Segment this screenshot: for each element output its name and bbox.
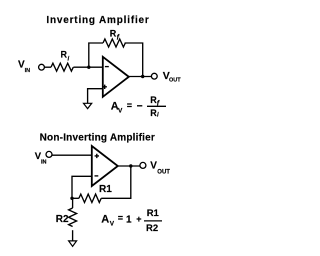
svg-text:R2: R2 — [146, 223, 158, 234]
svg-text:1: 1 — [126, 215, 132, 226]
svg-text:A: A — [101, 214, 109, 226]
svg-text:V: V — [110, 220, 115, 227]
svg-text:+: + — [136, 214, 141, 224]
svg-text:OUT: OUT — [169, 78, 181, 84]
svg-text:=: = — [118, 213, 123, 223]
svg-text:IN: IN — [25, 68, 31, 74]
svg-text:V: V — [150, 161, 157, 172]
svg-text:R1: R1 — [99, 184, 112, 195]
svg-text:V: V — [118, 107, 123, 114]
svg-text:OUT: OUT — [157, 170, 170, 176]
svg-text:R1: R1 — [147, 208, 160, 219]
svg-text:Non-Inverting Amplifier: Non-Inverting Amplifier — [40, 132, 155, 143]
svg-text:Inverting Amplifier: Inverting Amplifier — [46, 15, 149, 26]
svg-text:IN: IN — [41, 159, 47, 165]
svg-text:=: = — [127, 100, 132, 110]
svg-text:R2: R2 — [56, 214, 69, 225]
svg-text:R: R — [61, 50, 68, 60]
